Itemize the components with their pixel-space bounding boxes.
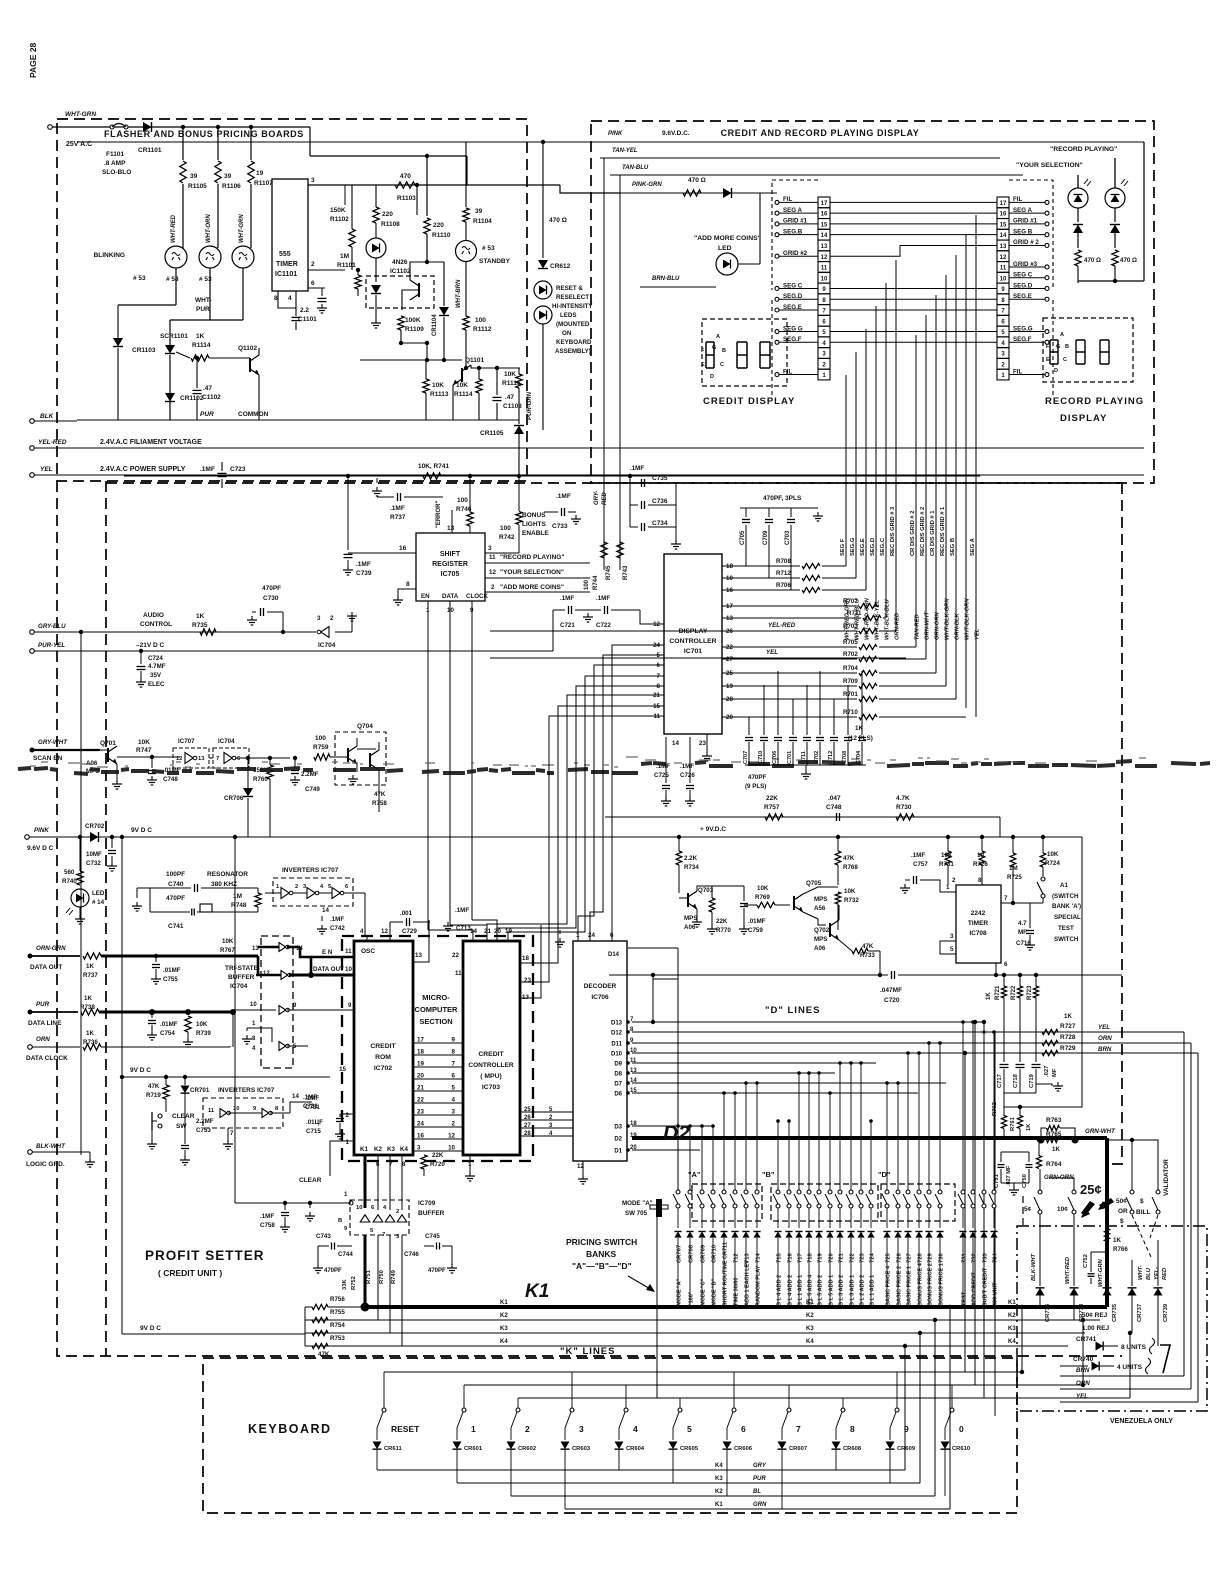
- svg-text:12: 12: [1000, 255, 1007, 261]
- svg-text:REC DIS GRID # 2: REC DIS GRID # 2: [920, 507, 926, 556]
- terminal WHT-GRN 25VAC: [48, 125, 53, 130]
- svg-text:16: 16: [417, 1133, 424, 1140]
- svg-text:C723: C723: [230, 466, 246, 473]
- svg-text:MPS: MPS: [814, 896, 827, 903]
- svg-text:SCAN EN: SCAN EN: [33, 755, 63, 762]
- svg-text:10: 10: [345, 966, 352, 973]
- svg-text:718: 718: [808, 1253, 814, 1263]
- decoder gnd top: [559, 938, 561, 942]
- svg-text:CR610: CR610: [952, 1446, 970, 1452]
- svg-text:R1110: R1110: [432, 232, 451, 239]
- svg-text:K3: K3: [806, 1326, 814, 1332]
- svg-text:Q704: Q704: [357, 723, 373, 730]
- svg-text:10: 10: [447, 607, 454, 614]
- svg-text:.1MF: .1MF: [303, 1094, 317, 1101]
- svg-text:2: 2: [952, 877, 956, 884]
- svg-text:2.2: 2.2: [300, 307, 309, 314]
- svg-text:Q1102: Q1102: [238, 345, 258, 352]
- main logic board dashed border outer: [57, 481, 1122, 1356]
- svg-text:B: B: [338, 1218, 342, 1224]
- svg-text:CR612: CR612: [550, 263, 571, 270]
- svg-text:B L 1 ADD 1: B L 1 ADD 1: [870, 1275, 876, 1306]
- svg-text:.1MF: .1MF: [630, 465, 644, 472]
- svg-text:IC702: IC702: [374, 1065, 392, 1072]
- rail filament voltage: [34, 447, 1144, 449]
- svg-text:12: 12: [653, 621, 660, 628]
- cap group ground: [1036, 1084, 1052, 1086]
- svg-text:BL: BL: [753, 1489, 761, 1495]
- keyboard feed rail 1: [384, 1371, 1022, 1373]
- resistor R1105: [181, 125, 185, 129]
- svg-text:10K, R741: 10K, R741: [418, 463, 449, 470]
- wire D1: [632, 1149, 700, 1151]
- thick jog data out to EN: [257, 956, 260, 975]
- svg-text:20: 20: [417, 1073, 424, 1080]
- capacitors C717 C718 C719: [1000, 1064, 1009, 1066]
- record playing lamp 2: [1105, 188, 1125, 208]
- svg-text:733: 733: [983, 1253, 989, 1263]
- capacitor C724 elec: [139, 649, 143, 653]
- K line K2: [305, 1319, 1100, 1321]
- credit connector dashed module outline: [772, 180, 818, 290]
- svg-text:F1101: F1101: [106, 151, 124, 158]
- IC702-IC703 interconnect pins: [413, 1042, 463, 1044]
- svg-text:STANDBY: STANDBY: [479, 258, 511, 265]
- capacitor C1101: [295, 308, 297, 316]
- ic 555 timer IC1101: [272, 179, 308, 291]
- svg-text:CREDIT AND RECORD PLAYING DISP: CREDIT AND RECORD PLAYING DISPLAY: [721, 128, 920, 138]
- svg-text:7: 7: [796, 1424, 801, 1434]
- riser K3: [930, 1333, 932, 1483]
- svg-text:1: 1: [471, 1424, 476, 1434]
- svg-text:731: 731: [962, 1253, 968, 1263]
- svg-text:K2: K2: [500, 1313, 508, 1319]
- svg-text:R754: R754: [330, 1322, 345, 1329]
- test switch A1: [1041, 877, 1045, 881]
- svg-text:4 UNITS: 4 UNITS: [1117, 1364, 1143, 1371]
- svg-text:R768: R768: [843, 864, 858, 871]
- svg-text:1M: 1M: [340, 253, 349, 260]
- svg-text:C1101: C1101: [298, 316, 317, 323]
- K line K4: [305, 1345, 1068, 1347]
- svg-text:2.4V.A.C FILIAMENT VOLTAGE: 2.4V.A.C FILIAMENT VOLTAGE: [100, 439, 202, 446]
- svg-text:R767: R767: [220, 947, 235, 954]
- feed rail risers right: [1021, 1358, 1023, 1376]
- svg-text:C731: C731: [303, 1103, 318, 1110]
- svg-text:470PF: 470PF: [748, 774, 766, 781]
- svg-text:ELEC: ELEC: [148, 681, 165, 688]
- svg-text:ADD CREDIT: ADD CREDIT: [972, 1271, 978, 1306]
- diode below led: [375, 258, 377, 282]
- svg-text:C735: C735: [652, 475, 668, 482]
- svg-text:B L 1 ADD 1: B L 1 ADD 1: [798, 1275, 804, 1306]
- resonator cluster left gnd: [136, 902, 138, 906]
- svg-text:24: 24: [417, 1121, 424, 1128]
- svg-text:D14: D14: [608, 952, 620, 958]
- svg-text:B L 4 ADD 2: B L 4 ADD 2: [788, 1275, 794, 1306]
- svg-text:723: 723: [860, 1253, 866, 1263]
- svg-text:D11: D11: [611, 1042, 622, 1048]
- svg-text:C749: C749: [305, 786, 320, 793]
- long vertical x81 wire: [80, 632, 82, 1155]
- svg-text:YEL-: YEL-: [1154, 1267, 1160, 1280]
- svg-text:719: 719: [818, 1253, 824, 1263]
- svg-text:C708: C708: [842, 751, 848, 764]
- resistor R1106: [216, 125, 220, 129]
- svg-text:BILL: BILL: [1136, 1209, 1150, 1216]
- svg-text:R723: R723: [1027, 985, 1033, 1000]
- svg-text:14: 14: [470, 928, 477, 935]
- wire 25VAC horizontal: [50, 126, 310, 128]
- svg-text:K4: K4: [400, 1146, 408, 1153]
- svg-text:K2: K2: [715, 1489, 723, 1495]
- svg-text:WHT-RED: WHT-RED: [1065, 1256, 1071, 1284]
- svg-text:K4: K4: [806, 1339, 814, 1345]
- svg-text:R750: R750: [379, 1270, 385, 1284]
- svg-text:WHT-BRN: WHT-BRN: [456, 279, 462, 308]
- svg-text:R760: R760: [253, 776, 268, 783]
- resistor R1108 220: [416, 185, 418, 208]
- wire D11 to R728 ORN: [632, 1042, 1191, 1044]
- svg-text:5: 5: [687, 1424, 692, 1434]
- svg-text:C751: C751: [994, 1173, 1000, 1188]
- caps row ground: [805, 765, 807, 770]
- svg-text:LEDS: LEDS: [560, 312, 577, 319]
- svg-text:A06: A06: [814, 945, 826, 952]
- keyboard bottom rail K3: [457, 1482, 920, 1484]
- record playing 7seg dashed box: [1043, 318, 1133, 382]
- svg-text:YEL: YEL: [40, 466, 53, 473]
- svg-text:MPS: MPS: [684, 915, 697, 922]
- keyboard feed riser 1022: [1021, 1307, 1023, 1372]
- svg-text:9V D C: 9V D C: [140, 1325, 161, 1332]
- svg-text:1K: 1K: [1026, 1123, 1032, 1131]
- svg-text:CR DIS GRID # 2: CR DIS GRID # 2: [910, 511, 916, 556]
- svg-text:R722: R722: [1011, 985, 1017, 1000]
- svg-text:BRN: BRN: [1076, 1367, 1090, 1374]
- svg-text:R725: R725: [1007, 874, 1022, 881]
- lamp #53 third: [232, 246, 254, 268]
- svg-text:39: 39: [224, 173, 232, 180]
- svg-text:C755: C755: [163, 976, 178, 983]
- svg-text:470PF: 470PF: [262, 585, 281, 592]
- svg-text:220: 220: [433, 222, 444, 229]
- svg-text:MF: MF: [1052, 1068, 1058, 1077]
- svg-text:COMMON: COMMON: [238, 411, 269, 418]
- svg-text:22: 22: [417, 1097, 424, 1104]
- clock wire to buffer inputs: [229, 1046, 231, 1047]
- svg-text:CLEAR: CLEAR: [172, 1113, 195, 1120]
- svg-text:GRN: GRN: [753, 1502, 767, 1508]
- keyboard right verticals: [844, 1346, 846, 1470]
- svg-text:R1113: R1113: [430, 391, 449, 398]
- svg-text:1: 1: [946, 884, 950, 891]
- svg-text:C709: C709: [763, 530, 769, 545]
- svg-text:"RECORD PLAYING": "RECORD PLAYING": [500, 554, 564, 561]
- D2 bus junction dots: [1038, 1137, 1045, 1144]
- resistor 470 under lamp1: [1075, 250, 1081, 266]
- svg-text:470 Ω: 470 Ω: [1120, 257, 1137, 264]
- Q703 collector wire: [697, 886, 712, 891]
- svg-text:IC1101: IC1101: [275, 271, 297, 278]
- svg-text:WHT-GRN: WHT-GRN: [1098, 1258, 1104, 1287]
- svg-text:35V: 35V: [150, 672, 162, 679]
- svg-text:R764: R764: [1046, 1161, 1062, 1168]
- svg-text:729: 729: [928, 1253, 934, 1263]
- svg-text:4: 4: [633, 1424, 638, 1434]
- svg-text:R743: R743: [623, 565, 629, 580]
- svg-text:C750: C750: [1022, 1174, 1028, 1188]
- svg-text:OR: OR: [1118, 1208, 1128, 1215]
- svg-text:2: 2: [311, 261, 315, 268]
- buffer input taps: [229, 1008, 231, 1012]
- wire D12 drop to keyboard: [994, 1032, 996, 1416]
- svg-text:4: 4: [360, 928, 364, 935]
- resistor 470 under lamp2: [1112, 250, 1118, 266]
- svg-text:10: 10: [356, 1205, 362, 1211]
- crossing wire grid2 jog: [830, 245, 997, 256]
- gnd under c758 row: [309, 1212, 311, 1216]
- svg-text:PRICING SWITCH: PRICING SWITCH: [566, 1237, 637, 1247]
- svg-text:14: 14: [322, 907, 329, 914]
- svg-text:VENEZUELA ONLY: VENEZUELA ONLY: [1110, 1418, 1173, 1425]
- terminal ORN-GRN DATA OUT: [28, 954, 33, 959]
- svg-text:PAGE 28: PAGE 28: [28, 42, 38, 78]
- svg-text:R758: R758: [372, 800, 387, 807]
- svg-text:R730: R730: [896, 804, 912, 811]
- lamp top wires: [1077, 175, 1079, 188]
- svg-text:13: 13: [821, 244, 828, 250]
- thick D2 vertical down: [1105, 1138, 1109, 1307]
- svg-text:SWITCH: SWITCH: [1054, 936, 1079, 943]
- svg-text:R711: R711: [847, 610, 862, 617]
- svg-text:C757: C757: [913, 861, 928, 868]
- svg-text:DATA LINE: DATA LINE: [28, 1020, 62, 1027]
- svg-text:3: 3: [452, 1109, 456, 1116]
- svg-text:722: 722: [850, 1253, 856, 1263]
- svg-text:R755: R755: [330, 1309, 345, 1316]
- svg-text:IC704: IC704: [218, 738, 235, 745]
- svg-text:7: 7: [216, 756, 219, 762]
- svg-text:47K: 47K: [862, 943, 874, 950]
- svg-text:ADD 1 EACH LEV: ADD 1 EACH LEV: [745, 1260, 751, 1306]
- svg-text:C753: C753: [196, 1127, 211, 1134]
- svg-text:R1114: R1114: [454, 391, 473, 398]
- svg-text:39: 39: [190, 173, 198, 180]
- svg-text:OSC: OSC: [361, 948, 375, 955]
- svg-text:TEST: TEST: [1058, 925, 1074, 932]
- svg-text:R759: R759: [313, 744, 329, 751]
- svg-text:C706: C706: [772, 751, 778, 764]
- svg-text:1K: 1K: [84, 995, 92, 1002]
- svg-text:C710: C710: [758, 751, 764, 764]
- svg-text:TIME 30/60: TIME 30/60: [734, 1278, 740, 1306]
- svg-text:12: 12: [381, 928, 388, 935]
- validator switch feed wires: [1107, 1152, 1132, 1192]
- svg-text:BANKS: BANKS: [586, 1249, 617, 1259]
- svg-text:C748: C748: [826, 804, 842, 811]
- svg-text:IC703: IC703: [482, 1084, 500, 1091]
- svg-text:50¢: 50¢: [1116, 1198, 1127, 1205]
- svg-text:K3: K3: [1008, 1326, 1016, 1332]
- svg-text:14: 14: [821, 233, 828, 239]
- buffer output verticals: [364, 1235, 367, 1307]
- validator diodes row: [1036, 1288, 1045, 1296]
- resistor R1107: [249, 125, 253, 129]
- svg-text:Q1101: Q1101: [465, 357, 485, 364]
- diode CR1102: [165, 393, 175, 402]
- svg-text:.01ЦF: .01ЦF: [306, 1119, 323, 1126]
- svg-text:C754: C754: [160, 1030, 175, 1037]
- svg-text:26: 26: [524, 1115, 531, 1121]
- svg-text:2.2MF: 2.2MF: [301, 771, 319, 778]
- svg-text:BLK-WHT: BLK-WHT: [1031, 1253, 1037, 1281]
- svg-text:(9 PLS): (9 PLS): [745, 783, 766, 790]
- svg-text:2.4V.A.C POWER SUPPLY: 2.4V.A.C POWER SUPPLY: [100, 466, 186, 473]
- svg-text:LIGHTS: LIGHTS: [522, 521, 546, 528]
- credit display connector J-strip 17..1: [818, 197, 830, 208]
- svg-text:# 14: # 14: [92, 899, 105, 906]
- svg-text:14: 14: [1000, 233, 1007, 239]
- svg-text:22K: 22K: [432, 1152, 444, 1159]
- svg-text:3: 3: [317, 615, 321, 622]
- resistor R1110 220: [426, 156, 428, 216]
- wire D10 drop to keyboard feed: [964, 1053, 966, 1372]
- lamp bottom rail: [1078, 280, 1144, 282]
- inverter bottom wiring: [165, 1112, 167, 1113]
- svg-text:470 Ω: 470 Ω: [549, 217, 567, 224]
- svg-text:(SWITCH: (SWITCH: [1052, 893, 1079, 900]
- scan noise band artifact: [18, 761, 1210, 774]
- svg-text:717: 717: [798, 1253, 804, 1263]
- svg-text:6: 6: [1004, 961, 1008, 968]
- svg-text:15: 15: [1000, 222, 1007, 228]
- svg-text:734: 734: [993, 1253, 999, 1263]
- svg-text:1K: 1K: [196, 333, 205, 340]
- svg-text:C703: C703: [785, 530, 791, 545]
- junction rail y343: [401, 342, 427, 344]
- svg-text:1: 1: [346, 1139, 350, 1146]
- svg-text:724: 724: [870, 1253, 876, 1263]
- IC705 EN wire down: [427, 601, 429, 930]
- svg-text:R720: R720: [430, 1161, 445, 1168]
- svg-text:C744: C744: [338, 1251, 353, 1258]
- credit controller IC703 box: [463, 941, 520, 1155]
- svg-text:10K: 10K: [456, 382, 468, 389]
- svg-text:712: 712: [734, 1253, 740, 1263]
- svg-text:.1MF: .1MF: [390, 505, 405, 512]
- wire decoder to mode-a column: [628, 947, 678, 949]
- wire 9vdc to resonator: [122, 887, 137, 889]
- svg-text:BLU: BLU: [1146, 1267, 1152, 1280]
- svg-text:ORN-GRN: ORN-GRN: [36, 945, 66, 952]
- wire D9: [632, 1062, 876, 1064]
- keyboard feed riser 1130: [1129, 1333, 1131, 1398]
- svg-text:BUFFER: BUFFER: [228, 974, 255, 981]
- svg-text:WHT-GRN: WHT-GRN: [239, 214, 245, 243]
- main logic board dashed border top: [106, 482, 1122, 484]
- diode on pink-grn wire: [723, 188, 732, 198]
- reset reselect LEDs: [534, 281, 552, 299]
- svg-text:CONTROLLER: CONTROLLER: [468, 1062, 513, 1069]
- svg-text:3: 3: [950, 933, 954, 940]
- svg-text:D8: D8: [614, 1072, 622, 1078]
- svg-text:13: 13: [522, 994, 529, 1001]
- svg-text:C712: C712: [828, 751, 834, 764]
- wire y975 bottom rail: [994, 973, 998, 977]
- optocoupler 4N26 IC1102 dashed box: [366, 276, 434, 308]
- diode CR701: [181, 1086, 190, 1094]
- svg-text:PUR: PUR: [36, 1001, 50, 1008]
- svg-text:# 53: # 53: [133, 275, 146, 282]
- dashed slant wires validator: [1132, 1215, 1151, 1257]
- svg-text:SW: SW: [176, 1123, 187, 1130]
- pricing arrow: [628, 1276, 652, 1290]
- svg-text:MICRO-: MICRO-: [422, 993, 450, 1002]
- svg-text:R1103: R1103: [397, 195, 416, 202]
- svg-text:R707: R707: [843, 598, 858, 605]
- svg-text:12: 12: [448, 1133, 455, 1140]
- main logic board dashed border inner: [105, 481, 107, 1356]
- svg-text:SEG.E: SEG.E: [860, 538, 866, 556]
- svg-text:GRY-BLU: GRY-BLU: [38, 623, 66, 630]
- svg-text:0: 0: [959, 1424, 964, 1434]
- svg-text:SEG.D: SEG.D: [870, 538, 876, 556]
- svg-text:R742: R742: [499, 534, 515, 541]
- svg-text:IC706: IC706: [591, 994, 609, 1001]
- svg-text:B: B: [1065, 344, 1069, 350]
- svg-text:YEL: YEL: [1098, 1024, 1110, 1031]
- svg-text:21: 21: [417, 1085, 424, 1092]
- svg-text:SHORT ROUTINE CR711: SHORT ROUTINE CR711: [723, 1242, 729, 1306]
- svg-text:4: 4: [452, 1097, 456, 1104]
- svg-text:6: 6: [741, 1424, 746, 1434]
- svg-text:REC DIS GRID # 3: REC DIS GRID # 3: [890, 506, 896, 556]
- wire SCR to Q1102 rail: [259, 347, 360, 349]
- svg-text:400 UNIT: 400 UNIT: [993, 1282, 999, 1306]
- svg-text:16: 16: [1000, 212, 1007, 218]
- bank switches and diodes: [677, 1126, 679, 1190]
- svg-text:.1MF: .1MF: [656, 763, 670, 770]
- lamp standby #53: [456, 241, 477, 262]
- 555 pin 2 wire: [308, 269, 345, 271]
- svg-text:BONUS PRICE 2: BONUS PRICE 2: [928, 1263, 934, 1306]
- DATA LINE buffer input wire: [233, 1009, 276, 1011]
- svg-text:D: D: [710, 374, 714, 380]
- svg-text:2: 2: [491, 584, 495, 591]
- capacitor column wires: [629, 476, 631, 527]
- svg-text:100PF: 100PF: [166, 871, 185, 878]
- svg-text:9V D C: 9V D C: [131, 827, 152, 834]
- svg-text:1K: 1K: [1052, 1146, 1060, 1153]
- svg-text:10: 10: [448, 1145, 455, 1152]
- svg-text:TAN-RED: TAN-RED: [915, 614, 921, 640]
- svg-text:DATA: DATA: [442, 593, 459, 600]
- terminal BLK-WHT LOGIC GRD: [28, 1150, 33, 1155]
- svg-text:D3: D3: [614, 1125, 622, 1131]
- svg-text:470 Ω: 470 Ω: [688, 177, 706, 184]
- keyboard feed riser 1083: [1082, 1320, 1084, 1385]
- wire y817 row: [605, 816, 1000, 818]
- svg-text:SECTION: SECTION: [419, 1017, 452, 1026]
- svg-text:8: 8: [406, 581, 410, 588]
- record display connector J-strip 17..1: [997, 197, 1009, 208]
- svg-text:100: 100: [315, 735, 326, 742]
- transistor Q optocoupler: [410, 280, 419, 300]
- svg-text:K1: K1: [715, 1502, 723, 1508]
- svg-text:K1: K1: [360, 1146, 368, 1153]
- svg-text:727: 727: [907, 1253, 913, 1263]
